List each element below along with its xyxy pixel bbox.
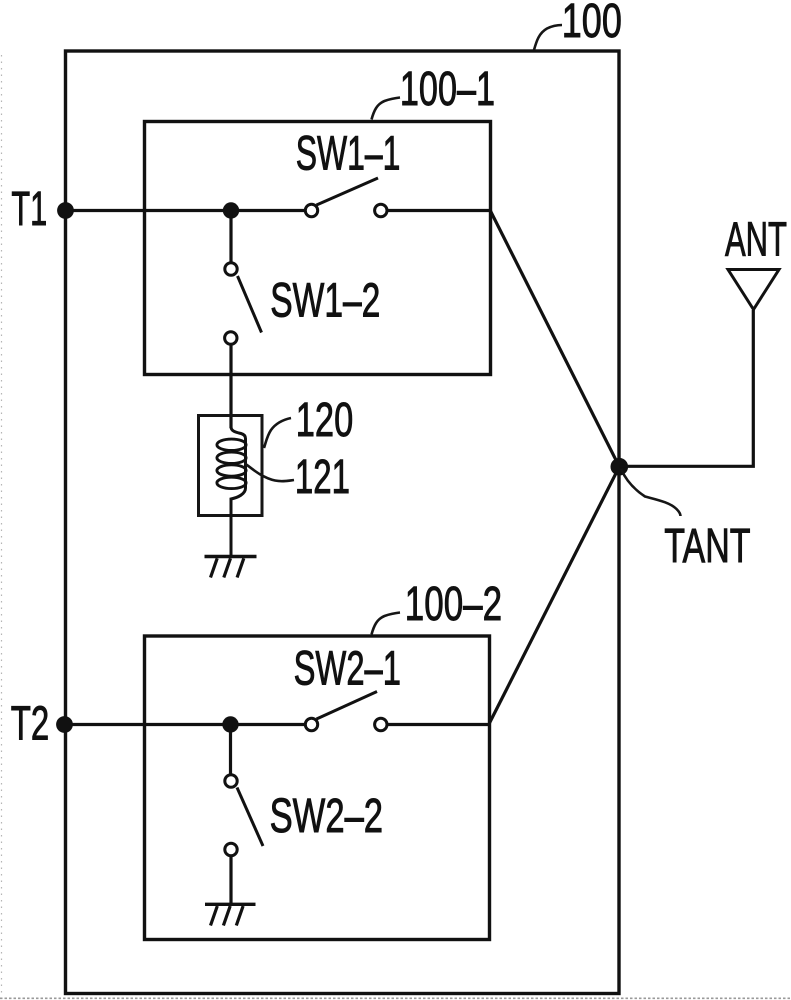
switch SW1-1 pole contact xyxy=(305,204,317,216)
ground below inductor xyxy=(205,555,257,558)
leader for label TANT xyxy=(621,469,681,516)
leader for label 100-1 xyxy=(372,98,401,120)
svg-text:T1: T1 xyxy=(11,182,47,236)
outer block 100 xyxy=(66,51,620,994)
scan artifact left edge xyxy=(1,55,3,995)
svg-text:100–1: 100–1 xyxy=(400,61,495,115)
leader for label 120 xyxy=(264,418,291,448)
inductor 121 lead-in xyxy=(231,427,246,556)
switch SW2-1 throw contact xyxy=(375,718,387,730)
wire diagonal 100-1 to TANT node xyxy=(491,211,620,467)
ground in block 100-2 xyxy=(205,903,256,906)
scan artifact bottom edge xyxy=(0,997,791,999)
wire SW1-2 down to matching box xyxy=(229,345,232,429)
switch SW1-1 arm xyxy=(317,178,379,205)
svg-text:SW1–2: SW1–2 xyxy=(270,272,380,326)
wire junction to SW1-2 xyxy=(229,211,232,263)
switch SW2-1 pole contact xyxy=(305,718,317,730)
svg-text:SW1–1: SW1–1 xyxy=(296,126,401,180)
switch SW2-2 upper contact xyxy=(225,775,237,787)
leader for label 100 xyxy=(534,25,562,50)
switch block 100-1 xyxy=(145,122,491,375)
wire diagonal 100-2 to TANT node xyxy=(490,467,620,723)
wire junction to SW2-2 xyxy=(229,725,232,775)
svg-text:SW2–1: SW2–1 xyxy=(294,641,401,695)
switch SW2-2 arm xyxy=(237,788,263,847)
leader for label 121 xyxy=(245,464,294,482)
wire SW2-2 to ground xyxy=(229,856,232,904)
wire node to antenna xyxy=(619,310,753,466)
node TANT xyxy=(611,458,629,476)
svg-text:120: 120 xyxy=(296,392,353,446)
switch block 100-2 xyxy=(145,636,490,940)
wire T2 row xyxy=(65,723,306,726)
switch SW1-2 lower contact xyxy=(225,332,237,344)
junction node row2 xyxy=(222,716,238,732)
inductor 121 coil loops xyxy=(217,439,246,450)
svg-text:SW2–2: SW2–2 xyxy=(270,788,383,842)
svg-text:100: 100 xyxy=(562,0,622,47)
switch SW1-2 arm xyxy=(238,276,262,333)
switch SW2-1 arm xyxy=(317,692,378,720)
switch SW2-2 lower contact xyxy=(225,843,237,855)
switch SW1-2 upper contact xyxy=(225,263,237,275)
svg-text:121: 121 xyxy=(295,450,350,504)
wire T1 row xyxy=(66,209,306,212)
terminal node T1 xyxy=(57,202,74,219)
wire SW1-1 to box edge xyxy=(388,209,491,212)
terminal node T2 xyxy=(56,716,73,733)
leader for label 100-2 xyxy=(372,613,401,635)
svg-text:100–2: 100–2 xyxy=(405,577,502,631)
matching circuit box 120 xyxy=(199,416,263,516)
svg-text:ANT: ANT xyxy=(725,212,787,267)
antenna ANT xyxy=(728,270,779,310)
wire SW2-1 to box edge xyxy=(388,723,490,726)
switch SW1-1 throw contact xyxy=(375,204,387,216)
svg-text:T2: T2 xyxy=(11,696,49,750)
svg-text:TANT: TANT xyxy=(664,518,750,572)
junction node row1 xyxy=(223,202,239,218)
